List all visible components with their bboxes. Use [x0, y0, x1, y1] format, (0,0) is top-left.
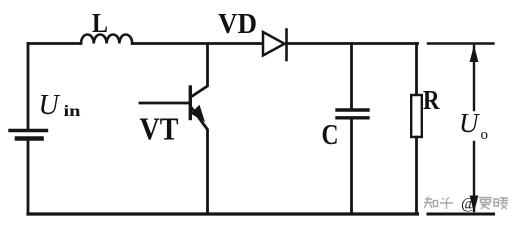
wire capacitor bottom lead: [350, 120, 353, 215]
svg-text:in: in: [64, 103, 81, 120]
svg-text:R: R: [423, 85, 440, 115]
transistor VT collector lead: [192, 44, 208, 97]
battery source top plate: [10, 129, 47, 132]
diode VD cathode bar: [285, 30, 288, 61]
diode VD: [263, 32, 285, 56]
capacitor C bottom plate: [337, 116, 368, 119]
node U_o arrow top head: [470, 45, 479, 62]
capacitor C top plate: [337, 108, 368, 111]
wire resistor bottom lead: [415, 137, 418, 214]
node U_o arrow bottom head: [470, 196, 479, 213]
transistor VT base lead: [140, 102, 189, 105]
node U_o arrow bottom reference segment: [428, 213, 494, 216]
wire bottom rail: [28, 212, 418, 215]
node U_o arrow top reference segment: [428, 42, 494, 44]
wire capacitor top lead: [350, 44, 353, 109]
wire top rail left segment: [28, 42, 81, 45]
wire resistor top lead: [415, 44, 418, 96]
node U_o arrow upper shaft: [473, 46, 475, 110]
inductor L: [81, 34, 132, 43]
svg-text:C: C: [322, 120, 339, 151]
battery source bottom plate: [17, 136, 42, 141]
svg-text:VT: VT: [140, 111, 179, 147]
wire left branch upper: [27, 44, 30, 130]
transistor VT emitter arrowhead: [191, 105, 206, 122]
svg-text:L: L: [92, 8, 108, 38]
svg-text:VD: VD: [218, 8, 257, 40]
wire top rail middle segment: [132, 42, 263, 45]
wire left branch lower: [27, 141, 30, 215]
wire top rail right segment: [287, 42, 418, 45]
svg-text:U: U: [39, 90, 61, 121]
svg-text:U: U: [459, 108, 480, 138]
node U_o arrow lower shaft: [473, 142, 475, 211]
watermark zhihu: [424, 197, 508, 210]
resistor R body: [411, 95, 422, 137]
svg-text:@: @: [461, 196, 476, 213]
transistor VT base bar: [189, 87, 192, 119]
svg-text:o: o: [481, 127, 489, 143]
transistor VT emitter lead: [192, 109, 208, 215]
